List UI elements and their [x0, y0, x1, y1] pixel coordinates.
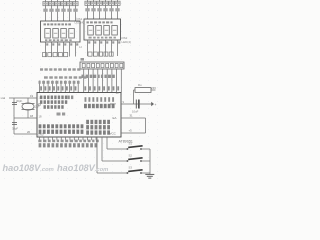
- svg-text:30pF: 30pF: [12, 127, 18, 131]
- svg-text:LED(4): LED(4): [122, 40, 132, 44]
- svg-text:S1: S1: [129, 142, 133, 146]
- svg-text:EA: EA: [113, 116, 117, 120]
- svg-text:12: 12: [79, 45, 82, 49]
- svg-text:hao108V.com: hao108V.com: [57, 163, 108, 173]
- svg-text:RST: RST: [110, 102, 116, 106]
- svg-text:+5: +5: [129, 129, 133, 133]
- svg-text:hao108V.com: hao108V.com: [3, 163, 54, 173]
- svg-text:30pF: 30pF: [16, 99, 22, 103]
- svg-text:LED(4): LED(4): [75, 21, 85, 25]
- svg-text:20: 20: [27, 130, 31, 134]
- svg-text:18: 18: [39, 114, 42, 118]
- svg-text:18: 18: [30, 114, 34, 118]
- svg-text:VCC: VCC: [110, 132, 117, 136]
- svg-text:Ru: Ru: [138, 83, 142, 87]
- svg-text:S2: S2: [129, 154, 133, 158]
- svg-text:19: 19: [30, 94, 34, 98]
- svg-text:GND: GND: [38, 133, 44, 137]
- svg-text:31: 31: [130, 114, 133, 118]
- svg-text:10: 10: [116, 91, 119, 95]
- svg-text:19: 19: [39, 96, 42, 100]
- svg-text:S3: S3: [129, 166, 133, 170]
- svg-text:+: +: [155, 103, 157, 107]
- svg-text:+5V: +5V: [151, 86, 156, 90]
- svg-text:xtal: xtal: [1, 96, 6, 100]
- svg-text:12M: 12M: [34, 105, 40, 109]
- svg-text:10uF: 10uF: [132, 109, 139, 113]
- svg-text:9: 9: [123, 100, 125, 104]
